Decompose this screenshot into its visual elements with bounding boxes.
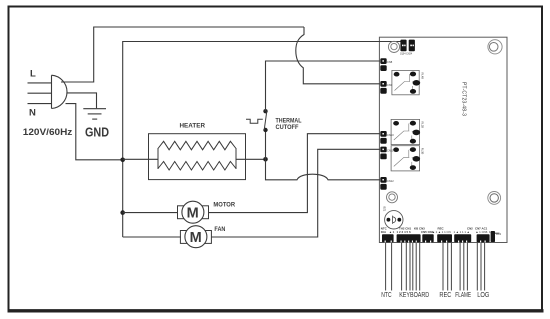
wire hot hop down to PCB connector J2 xyxy=(296,27,380,84)
svg-text:120V/60Hz: 120V/60Hz xyxy=(23,127,73,137)
PCB mounting hole top-right xyxy=(488,40,502,54)
svg-text:N: N xyxy=(29,108,36,119)
wire neutral to fan xyxy=(123,236,181,238)
svg-text:CN2: CN2 xyxy=(467,227,473,231)
fan M2 body xyxy=(185,226,207,248)
buzzer BZ1 xyxy=(383,207,403,230)
PCB faston connector J1 xyxy=(380,58,392,71)
svg-text:M: M xyxy=(190,230,202,246)
svg-text:L: L xyxy=(30,69,36,80)
PCB mounting hole top-left xyxy=(388,41,399,52)
fan M2 bracket xyxy=(180,231,211,244)
plug P1 prong L xyxy=(28,82,52,84)
wire cutoff top to PCB connector J1 xyxy=(266,61,381,111)
svg-text:LOG: LOG xyxy=(477,290,489,299)
bottom connector CN-NTC xyxy=(382,234,394,242)
PCB faston connector J3 xyxy=(380,131,394,144)
bottom connector CN-REC xyxy=(437,234,452,242)
plug P1 body xyxy=(52,75,68,108)
node thermal cutoff upper contact xyxy=(263,109,267,113)
svg-text:TH2 CN1: TH2 CN1 xyxy=(399,227,411,231)
svg-text:CN8: CN8 xyxy=(387,60,393,64)
svg-text:GND: GND xyxy=(85,126,109,140)
PCB faston connector J4 xyxy=(380,147,394,160)
svg-text:KEYBOARD: KEYBOARD xyxy=(399,290,429,299)
PCB mounting hole bottom-right xyxy=(488,192,501,205)
svg-text:CN12: CN12 xyxy=(387,179,394,183)
motor M1 body xyxy=(182,201,204,223)
svg-text:CUTOFF: CUTOFF xyxy=(276,124,299,131)
svg-text:CN11: CN11 xyxy=(387,149,394,153)
svg-text:▲ 1: ▲ 1 xyxy=(389,230,395,234)
PCB board outline xyxy=(379,37,507,242)
svg-text:NTC: NTC xyxy=(381,290,392,299)
harness NTC wires xyxy=(386,242,392,290)
relay K3 xyxy=(391,146,424,171)
svg-text:RL2B: RL2B xyxy=(421,122,425,129)
wire fan to PCB connector J4 xyxy=(212,149,381,237)
wire cutoff node down and to PCB connector J5 with hop xyxy=(266,159,381,180)
bottom connector CN-LOG xyxy=(477,234,490,242)
plug P1 prong N xyxy=(28,103,52,105)
wire neutral rail to PCB top connector xyxy=(123,42,401,238)
bottom connector CN-SPARE xyxy=(422,234,433,242)
wire neutral to heater xyxy=(123,158,158,160)
heater element top xyxy=(158,141,236,150)
heater element bottom xyxy=(158,162,236,171)
bottom connector CN-AC xyxy=(491,231,495,242)
node motor/neutral junction xyxy=(120,210,125,215)
svg-text:MOTOR: MOTOR xyxy=(213,202,235,209)
PCB faston connector J5 xyxy=(380,177,394,190)
harness KEYBOARD wires xyxy=(402,242,420,290)
svg-text:M: M xyxy=(187,205,199,221)
svg-text:FLAME: FLAME xyxy=(455,290,471,299)
PCB faston connector J2 xyxy=(380,81,392,94)
PCB top connector JQ2 xyxy=(409,40,415,52)
harness FLAME wires xyxy=(460,242,467,290)
svg-text:FAN: FAN xyxy=(214,226,225,233)
svg-text:CN10: CN10 xyxy=(387,133,394,137)
node thermal cutoff lower contact xyxy=(263,128,267,132)
motor M1 bracket xyxy=(178,206,209,219)
svg-text:REC: REC xyxy=(439,290,451,299)
wire N from plug down to neutral rail xyxy=(66,104,123,160)
node thermal cutoff bottom xyxy=(263,157,268,162)
svg-text:RL3B: RL3B xyxy=(421,148,425,155)
thermal cutoff actuator notch xyxy=(246,119,263,123)
svg-text:▲ 1 CN6: ▲ 1 CN6 xyxy=(476,230,488,234)
heater left bus xyxy=(157,148,159,169)
bottom connector CN-FLAME xyxy=(454,234,471,242)
thermal cutoff blade xyxy=(264,111,267,130)
wire cutoff lower link xyxy=(265,130,267,159)
node heater/neutral junction xyxy=(120,158,125,163)
relay K2 xyxy=(391,119,424,144)
svg-text:AC2: AC2 xyxy=(496,232,502,236)
svg-text:RL4B: RL4B xyxy=(421,73,425,80)
svg-text:PT-CT23-48-3: PT-CT23-48-3 xyxy=(461,82,467,116)
PCB mounting hole bottom-left xyxy=(387,192,398,203)
bottom connector CN-KEYBOARD xyxy=(397,234,421,242)
heater right bus xyxy=(235,148,237,169)
PCB top connector JQ1 xyxy=(400,40,406,52)
svg-text:30A: 30A xyxy=(381,230,387,234)
relay K1 xyxy=(392,70,425,94)
svg-text:▲ 1 1 CN: ▲ 1 1 CN xyxy=(438,230,451,234)
wire heater to cutoff node xyxy=(236,158,266,160)
wire GND from plug xyxy=(67,93,97,108)
heater box xyxy=(149,134,246,180)
ground symbol xyxy=(83,109,106,119)
bottom silk tiny labels xyxy=(381,227,502,236)
plug P1 prong GND xyxy=(28,92,52,94)
svg-text:BZ1: BZ1 xyxy=(383,207,387,212)
wire motor to PCB connector J3 xyxy=(209,134,381,213)
harness LOG wires xyxy=(477,242,484,290)
svg-text:HEATER: HEATER xyxy=(180,123,206,130)
wire neutral to motor xyxy=(123,212,178,214)
wire L from plug to top rail xyxy=(61,27,304,82)
svg-text:JQ04 CN24: JQ04 CN24 xyxy=(400,54,413,56)
harness REC wires xyxy=(443,242,451,290)
